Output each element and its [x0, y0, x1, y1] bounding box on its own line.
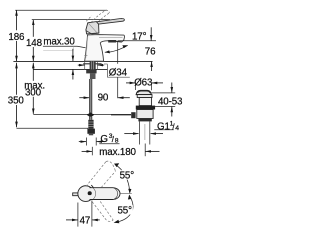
- deck top line: [13, 60, 152, 62]
- dim 90: [79, 97, 89, 99]
- top view: knob dot: [88, 191, 92, 195]
- pop-up body: [137, 110, 153, 119]
- svg-text:4: 4: [175, 125, 179, 132]
- faucet dashed raised lever: [86, 10, 109, 27]
- svg-text:186: 186: [8, 32, 25, 43]
- hose fitting below nut: [90, 73, 96, 79]
- supply hose: [89, 79, 92, 113]
- pop-up upper pipe: [139, 98, 151, 106]
- pop-up waste flange dome: [136, 90, 151, 94]
- top view: body capsule: [90, 188, 121, 200]
- swivel arc lower: [116, 195, 133, 222]
- top view: knob joint arc: [93, 188, 96, 199]
- top view: knob pointer tick: [91, 185, 93, 187]
- dim 350 vertical line: [16, 63, 18, 95]
- dim 76 lower arrow: [151, 62, 153, 71]
- arc arrowhead top (lower): [128, 195, 131, 200]
- dim Ø63: [135, 84, 137, 90]
- svg-text:76: 76: [145, 47, 156, 58]
- wire: extension line (148 ref): [32, 19, 110, 21]
- dim max.180: [91, 147, 93, 156]
- faucet shank in deck: [90, 61, 96, 69]
- pop-up drain pipe: [138, 121, 140, 144]
- rod connector block: [131, 112, 135, 118]
- arc arrowhead left: [105, 50, 110, 53]
- 17 degree swing arc: [105, 45, 128, 52]
- svg-text:Ø63: Ø63: [134, 78, 153, 89]
- arc arrowhead right: [122, 45, 128, 48]
- dim 148 vertical line: [32, 20, 34, 37]
- base step: [84, 54, 87, 56]
- faucet handle knob: [86, 22, 99, 34]
- pop-up gasket: [136, 106, 155, 110]
- svg-text:350: 350: [8, 96, 25, 107]
- top view: lever tab: [73, 193, 79, 196]
- G3/8 threaded fitting: [88, 120, 93, 129]
- pop-up operating rod: [111, 114, 131, 116]
- svg-text:47: 47: [80, 215, 91, 226]
- pop-up flange base ring: [137, 95, 152, 98]
- dim G1 1/4 arrows: [124, 133, 138, 135]
- svg-text:Ø34: Ø34: [109, 67, 128, 78]
- svg-text:max.30: max.30: [43, 36, 75, 47]
- G3/8 tip: [89, 134, 93, 136]
- arc arrowhead bottom (upper): [128, 189, 131, 194]
- pop-up body lower band: [138, 118, 151, 121]
- mounting nut: [86, 69, 96, 73]
- faucet body and spout: [85, 35, 125, 62]
- label 55 upper: [119, 170, 135, 179]
- deck hole edge left: [84, 61, 86, 69]
- wire: spout outlet reference line: [118, 40, 156, 42]
- dim max.30 upper arrow: [72, 49, 74, 61]
- aerator: [108, 40, 116, 43]
- dim max.30 lower arrow: [72, 70, 74, 80]
- dashed swung handle upper: [86, 161, 116, 187]
- svg-text:90: 90: [98, 92, 109, 103]
- wire: extension line top (186 ref): [15, 9, 107, 11]
- supply hose lower: [89, 117, 92, 120]
- deck hole edge right: [96, 61, 98, 69]
- wire: extension line at hose end (350 ref): [17, 127, 89, 129]
- svg-text:G1: G1: [157, 122, 170, 133]
- svg-text:55°: 55°: [118, 205, 133, 216]
- body left shading: [86, 37, 88, 59]
- wire: spout outlet vertical extension: [117, 41, 119, 64]
- dim max.300 vertical line: [32, 63, 34, 81]
- dim 76 upper arrow: [150, 27, 152, 40]
- wire: max.30 underline leader: [43, 46, 86, 48]
- swivel arc upper: [115, 165, 129, 193]
- svg-text:148: 148: [26, 38, 43, 49]
- top view: axis line: [121, 193, 132, 195]
- deck bottom line: [33, 68, 107, 70]
- top view: end cap inner arc: [114, 188, 118, 200]
- label Ø34 box: [104, 63, 108, 65]
- arc arrowhead top (upper): [114, 163, 119, 167]
- hose joint block: [87, 112, 94, 117]
- svg-text:40-53: 40-53: [158, 97, 183, 108]
- wire: extension line at hose joint (max.300 ref): [33, 113, 131, 115]
- svg-text:300: 300: [25, 88, 42, 99]
- dim 186 vertical line: [16, 10, 18, 30]
- dim Ø34 arrows: [78, 64, 85, 66]
- svg-text:max.180: max.180: [99, 147, 136, 158]
- dim G3/8 width ticks: [85, 138, 87, 146]
- faucet lever handle (solid): [97, 18, 125, 24]
- spout top highlight line: [99, 36, 123, 38]
- dashed swung handle lower: [92, 201, 113, 221]
- dim 47: [77, 203, 79, 227]
- label 55 lower: [117, 205, 133, 214]
- washer plate under base: [83, 63, 101, 65]
- top view: knob circle: [78, 186, 94, 202]
- arc arrowhead bottom (lower): [114, 220, 120, 224]
- G3/8 nut: [87, 129, 95, 134]
- svg-text:55°: 55°: [120, 170, 135, 181]
- dim 40-53: [150, 92, 175, 94]
